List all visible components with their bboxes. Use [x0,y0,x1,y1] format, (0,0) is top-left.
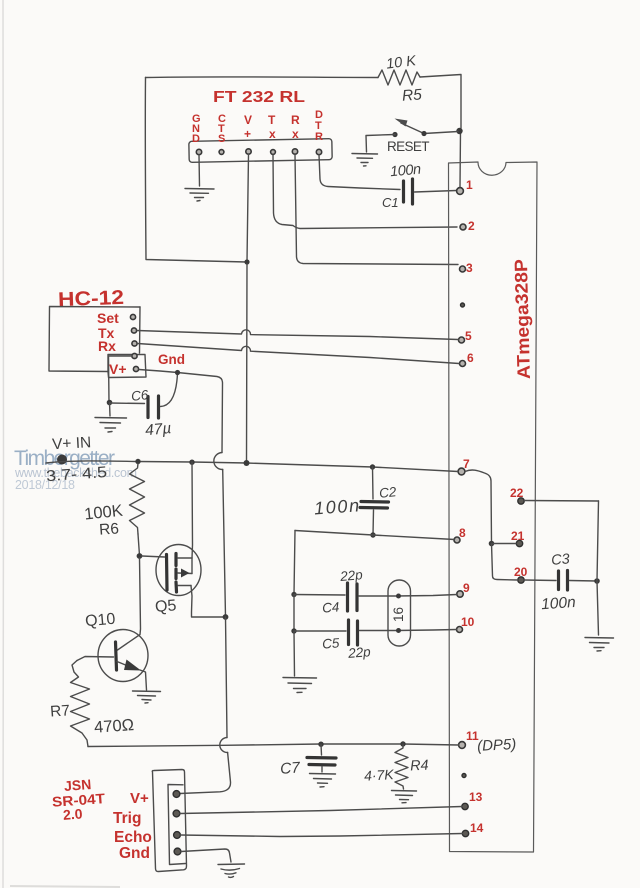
wire: gnd net horizontal to pin 8 [295,531,455,540]
svg-text:2.0: 2.0 [62,805,83,822]
node: V+ frame junction [244,259,249,264]
node: C5 junction [291,628,296,633]
capacitor C5 plates [347,620,350,645]
wire: HC-12 Rx to pin 6 [138,344,460,364]
wire: V+ frame top edge to R5 [146,76,379,79]
Q5 source tie vertical [191,558,193,574]
svg-text:21: 21 [511,529,525,543]
resistor R4 4.7K zigzag [395,744,408,789]
pin 3 [460,266,466,272]
capacitor C1 plates [402,181,405,202]
svg-text:7: 7 [463,457,470,471]
pin 22 [518,498,524,504]
svg-text:C5: C5 [322,635,341,651]
svg-text:R5: R5 [401,86,422,104]
node: C4 junction [291,592,296,597]
wire: Q10 collector up to gate junction [118,558,141,650]
wire: C4 left lead [294,594,345,597]
svg-text:GND: GND [192,113,201,145]
svg-text:8: 8 [459,526,466,540]
Q5 bottom stub [178,585,191,587]
wire: reset node down to pin 1 [459,131,462,187]
node: C7 junction [318,742,323,747]
pin 7 [458,468,465,475]
svg-text:Gnd: Gnd [158,352,185,367]
svg-text:16: 16 [391,607,406,622]
Q10 emitter arrowhead [124,660,141,671]
pin Rx [132,341,137,346]
svg-text:C2: C2 [378,484,397,501]
wire: C6 right plate up to V+ wire [161,373,178,407]
svg-text:5: 5 [465,329,472,343]
wire: reset contact to ground [366,135,395,153]
pin 12 (unlabeled) [462,774,466,778]
pin Echo [174,832,181,839]
pin Set [130,314,135,319]
wire: V+ net box outline (left + bottom of FT232 frame) [145,78,246,263]
wire: header DTR to C1 [319,155,400,190]
svg-text:4·7K: 4·7K [364,766,395,784]
wire: Q10 emitter to ground [140,670,147,690]
pin V+ of header [246,149,251,154]
svg-text:V+ IN: V+ IN [52,434,92,453]
pin 10 [457,627,463,633]
wire: C4 right lead to pin 9 [359,595,457,597]
wire: Echo to pin 14 [181,834,463,837]
wire: switched V+ down to Q5 drain junction [223,470,226,617]
wire: junction to C6 left plate [110,402,145,405]
node: C3/pin22 junction [594,578,600,584]
capacitor C6 plates [146,397,149,418]
wire: down then to pin 20 [492,544,518,581]
pin 13 [462,803,468,809]
pin 2 [460,224,466,230]
svg-text:(DP5): (DP5) [477,736,517,755]
module HC-12 box [49,307,140,372]
wire: Q10 base lead [77,657,114,661]
svg-text:Rx: Rx [291,113,300,141]
wire: pin 20 through C3 [524,579,556,582]
wire: header Rx to ATmega pin 3 [295,155,458,265]
svg-text:ATmega328P: ATmega328P [511,259,534,379]
resistor R5 10K zigzag [378,70,420,85]
pin 5 [459,337,465,343]
svg-text:Trig: Trig [113,810,141,827]
svg-text:47µ: 47µ [144,420,172,439]
svg-text:Set: Set [97,310,119,326]
pin Rx of header [292,149,297,154]
svg-text:22: 22 [510,486,524,500]
pin Trig [173,810,180,817]
node: R4 junction [400,741,405,746]
svg-text:6: 6 [467,351,474,365]
pin Gnd [132,353,137,358]
wire: pin22 net vertical [597,501,599,635]
node: V+ IN terminal dot [57,455,67,465]
wire: C7 top lead [320,744,323,755]
pin 6 [460,361,466,367]
svg-text:R4: R4 [410,758,429,775]
pin 1 [457,188,464,195]
wire: C7 bottom lead [321,767,323,773]
module HC-12 V+ tab [108,355,146,378]
node: C6 junction on V+ wire [175,370,180,375]
wire: junction down to ground [109,403,112,417]
switch RESET arrowhead [395,119,408,127]
ground (R4) [392,791,417,803]
node: C2 gnd junction [370,532,375,537]
svg-text:V+: V+ [130,790,149,807]
module JSN connector outline [152,770,186,872]
svg-text:Q5: Q5 [154,597,177,616]
pin V+ [133,366,138,371]
node: HC-12 ground junction [107,400,113,406]
svg-text:13: 13 [469,790,483,804]
wire: HC-12 V+ pin right then down (switched V+) [139,370,223,453]
crystal pin top [396,594,401,599]
wire: HC-12 Gnd pin to ground [109,356,133,403]
svg-text:Gnd: Gnd [119,845,150,862]
wire hop over bottom rail [220,738,228,753]
wire: pin 7 to pins 21/20 column [465,470,492,543]
svg-text:R6: R6 [99,520,120,538]
Q5 top stub [178,557,193,559]
Q5 channel segments [174,554,177,566]
wire: C1 to pin 1 [415,191,457,193]
capacitor C4 plates [346,583,349,611]
pin 11 [459,742,466,749]
Q5 body arrow [181,569,190,578]
wire: Q5 drain lead down [191,586,226,618]
svg-text:14: 14 [470,821,484,835]
node: gate junction (R6/Q10 collector/Q5 gate) [137,553,143,559]
pin 8 [454,537,460,543]
wire: C5 left lead [294,630,346,632]
wire: V+ down to V+ IN rail [246,264,249,461]
svg-text:Rx: Rx [98,338,116,354]
crystal pin bottom [396,628,401,633]
pin 21 [516,540,522,546]
pin GND of header [196,149,201,154]
switch contact (moving) [421,131,426,136]
ground (Q10 emitter) [133,691,161,703]
switch contact (fixed) [392,132,397,137]
ground (C3) [585,638,614,652]
resistor R6 100K zigzag [130,464,145,535]
module HC-12 box right edge [139,307,142,353]
node: rail junction Q5 source [189,460,194,465]
wire: header V+ pin down to frame junction [247,155,249,262]
node: rail junction C2 [370,464,375,469]
wire: Trig to pin 13 [180,807,462,814]
svg-text:470Ω: 470Ω [94,716,135,737]
svg-text:100n: 100n [389,162,421,181]
node: Q5 drain / switched V+ junction [223,614,229,620]
wire: gnd net down to C5 [293,595,295,632]
pin Tx of header [271,150,276,155]
transistor Q5 MOSFET circle [156,545,201,596]
pin CTS of header [219,150,224,155]
wire: V+ IN rail [46,461,458,472]
pin 20 [518,577,524,583]
ground (RESET) [352,154,378,167]
wire: down and into JSN V+ pin [180,753,231,794]
node: rail junction FT232 V+ [244,460,250,466]
resistor R7 470ohm zigzag [71,661,90,747]
scan left edge [2,0,5,888]
wire: Q5 source lead up to rail [191,462,194,558]
node: reset common junction [456,128,462,134]
wire: C2 top from rail junction [372,467,375,499]
crystal Y1 outline [388,580,411,646]
capacitor C2 plates [361,500,389,504]
svg-text:V+: V+ [244,113,252,141]
svg-text:Tx: Tx [268,113,276,141]
wire: header GND pin down [198,155,201,186]
svg-text:22p: 22p [347,644,372,661]
svg-text:RESET: RESET [387,139,431,154]
Q10 base bar [116,642,117,670]
ground (HC-12) [95,418,127,433]
wire: R6 bottom to gate junction [138,534,140,556]
ground (FT232 GND) [185,189,214,202]
svg-text:100n: 100n [541,594,577,613]
wire: echo rail R7 to pin 11 [88,744,459,747]
wire: C5 right lead to pin 10 [360,630,457,631]
wire: C2 bottom to gnd net [372,510,375,535]
wire: gnd net left down to C4/C5 [294,531,295,595]
node: junction pin21 branch [489,541,495,547]
svg-text:Echo: Echo [114,829,152,846]
svg-text:C6: C6 [130,387,149,404]
pin 9 [457,591,463,597]
capacitor C3 plates [557,571,560,590]
ground (JSN) [218,864,245,877]
ground (crystal caps) [283,678,317,693]
wire: switched V+ down to hop at echo rail [226,617,228,738]
switch RESET arm [401,123,458,134]
wire: header Tx to ATmega pin 2 [273,155,457,229]
transistor Q10 circle [98,630,148,682]
module JSN inner edge [168,785,186,865]
svg-text:20: 20 [514,565,528,579]
svg-text:C4: C4 [322,599,340,615]
wire hop over V+ IN rail [214,453,223,470]
svg-text:9: 9 [463,581,470,595]
wire: gnd net down to ground [293,631,296,676]
svg-text:10: 10 [461,615,475,629]
wire: JSN Gnd to ground [181,849,231,862]
IC U1 ATmega328P outline [449,162,538,852]
svg-text:1: 1 [466,178,473,192]
svg-text:22p: 22p [339,567,364,584]
pin Tx [131,328,136,333]
Q5 middle stub with arrow [178,572,192,575]
wire: branch to pin 21 [492,543,517,545]
ground (C7) [310,774,336,788]
svg-text:C7: C7 [280,759,302,777]
capacitor C7 plates [307,756,336,760]
svg-text:R7: R7 [50,702,71,720]
svg-text:FT 232 RL: FT 232 RL [213,89,305,106]
Q10 emitter line [117,662,133,669]
wire: pin 22 right [525,500,599,503]
wire: C3 right to AVCC vertical [570,580,597,583]
scan bottom edge [10,886,120,887]
connector strip FT232 header [189,139,332,163]
svg-text:3: 3 [466,261,473,275]
pin 14 [462,830,468,836]
pin DTR of header [316,149,321,154]
Q5 gate bar [165,555,169,591]
wire: HC-12 Tx to pin 5 [137,330,458,340]
svg-text:V+: V+ [109,361,127,377]
svg-text:C3: C3 [551,551,571,569]
pin 4 (unlabeled) [461,303,465,307]
svg-text:2: 2 [468,219,475,233]
svg-text:Q10: Q10 [84,611,116,631]
wire: gate junction to Q5 gate [142,556,165,557]
svg-text:C1: C1 [382,195,399,210]
pin Gnd (JSN) [174,848,181,855]
node: rail junction R6 [135,459,140,464]
pin V+ (JSN) [173,791,180,798]
wire: R5 to reset node [420,75,461,129]
